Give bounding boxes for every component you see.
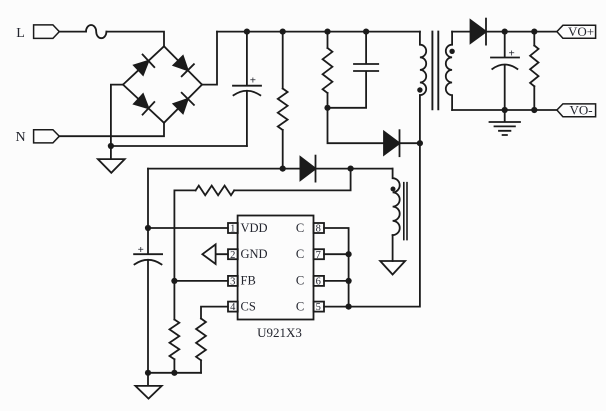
svg-text:3: 3 <box>230 277 235 288</box>
svg-text:CS: CS <box>241 299 256 313</box>
svg-text:2: 2 <box>230 250 235 261</box>
connector VO+ <box>557 25 596 38</box>
pin 4 box <box>228 302 238 314</box>
ground (IC) <box>135 373 161 399</box>
junction dot bottom left <box>145 370 151 376</box>
wire snubber to clamp diode <box>328 108 385 143</box>
wire bus to FB resistor <box>234 169 350 191</box>
wire N to bridge bottom <box>59 123 164 136</box>
aux winding phase dot <box>391 187 396 192</box>
capacitor C3 output <box>491 32 519 110</box>
svg-text:GND: GND <box>241 247 268 261</box>
junction dot bottom mid <box>171 370 177 376</box>
junction dot VDD <box>145 225 151 231</box>
svg-text:5: 5 <box>316 302 321 313</box>
wire top rail <box>217 31 420 33</box>
junction dot FB <box>171 278 177 284</box>
wire pin5 to drain <box>324 306 349 308</box>
transformer T1 secondary winding <box>446 32 452 110</box>
svg-text:C: C <box>296 299 304 313</box>
resistor R5 FB lower <box>170 320 180 360</box>
node junction dot gnd rail <box>108 143 114 149</box>
svg-text:U921X3: U921X3 <box>257 325 302 340</box>
junction dot output cap top <box>502 29 508 35</box>
fuse F1 <box>86 25 106 38</box>
resistor R2 snubber <box>327 32 329 48</box>
svg-text:C: C <box>296 221 304 235</box>
capacitor C2 snubber <box>328 32 379 108</box>
connector VO- <box>557 104 596 117</box>
pin 1 box <box>228 223 238 235</box>
svg-text:VO+: VO+ <box>568 24 594 39</box>
aux core <box>404 183 407 240</box>
wire fuse to bridge top <box>106 32 164 47</box>
svg-text:N: N <box>15 130 25 145</box>
junction dot output res top <box>531 29 537 35</box>
junction dot pin5 <box>346 304 352 310</box>
svg-text:+: + <box>508 47 514 59</box>
connector L <box>34 25 60 39</box>
junction dot cap bottom <box>502 107 508 113</box>
earth ground (secondary) <box>490 110 521 135</box>
pin 7 box <box>314 249 324 261</box>
svg-text:VO-: VO- <box>569 103 592 118</box>
wire secondary top to diode <box>452 31 470 33</box>
wire pin7 to bus <box>324 253 349 255</box>
svg-text:VDD: VDD <box>241 221 268 235</box>
junction dot drain/clamp <box>417 140 423 146</box>
wire FB column <box>173 190 175 319</box>
ground (primary) <box>98 146 125 173</box>
svg-text:6: 6 <box>316 277 321 288</box>
transformer T1 primary winding <box>420 32 426 96</box>
svg-text:7: 7 <box>316 250 321 261</box>
transformer T1 primary phase dot <box>417 87 422 92</box>
junction dot snubber bottom <box>324 105 330 111</box>
inductor L1 aux winding <box>393 169 400 236</box>
diode D6 output rectifier <box>471 19 557 45</box>
wire pin8 to bus <box>324 228 349 307</box>
connector N <box>34 130 60 143</box>
wire aux to ground arrow <box>392 235 394 261</box>
ground arrow (GND pin 2) <box>202 244 227 264</box>
svg-text:+: + <box>250 75 256 87</box>
wire diode row <box>148 168 300 170</box>
pin 3 box <box>228 276 238 288</box>
capacitor C4 VDD <box>134 228 162 373</box>
junction dot pin7 <box>346 251 352 257</box>
junction dot pin6 <box>346 278 352 284</box>
svg-text:C: C <box>296 274 304 288</box>
pin 2 box <box>228 249 238 261</box>
pin 5 box <box>314 302 324 314</box>
svg-text:L: L <box>16 26 25 41</box>
diode D5 clamp <box>384 130 420 156</box>
svg-text:C: C <box>296 247 304 261</box>
bridge edge bottom-right <box>164 85 202 123</box>
svg-text:+: + <box>138 244 144 256</box>
op-amp U1 box U921X3 <box>238 216 314 320</box>
wire VDD row <box>148 169 228 228</box>
wire bridge+ to top rail <box>202 32 217 85</box>
wire FB to pin3 <box>174 280 227 282</box>
resistor R6 CS sense <box>196 319 206 361</box>
wire bottom gnd rail <box>148 372 201 374</box>
junction dot diode row left <box>280 166 286 172</box>
wire secondary bottom rail <box>452 109 557 111</box>
resistor R3 output load <box>533 32 535 46</box>
bridge edge top-right <box>164 46 202 84</box>
junction dot diode row right <box>348 166 354 172</box>
wire bridge- to gnd rail <box>111 85 247 146</box>
wire primary bottom (drain) <box>349 95 420 307</box>
junction dot R1 top <box>280 29 286 35</box>
resistor R4 FB upper <box>196 186 235 196</box>
diode D4 (bridge bottom-right) <box>174 93 194 113</box>
ground (aux winding) <box>380 261 405 275</box>
diode D7 aux rectifier <box>300 156 392 182</box>
junction dot res bottom <box>531 107 537 113</box>
wire L to fuse <box>59 31 86 33</box>
diode D1 (bridge top-left) <box>134 55 154 75</box>
pin 8 box <box>314 223 324 235</box>
wire pin6 to bus <box>324 280 349 282</box>
transformer T1 core <box>432 32 438 110</box>
resistor R1 startup <box>282 32 284 89</box>
bridge edge top-left <box>123 46 164 84</box>
capacitor C1 bulk + lead <box>233 32 261 146</box>
svg-text:FB: FB <box>241 274 256 288</box>
diode D3 (bridge bottom-left) <box>134 94 154 114</box>
bridge edge bottom-left <box>123 85 164 123</box>
pin 6 box <box>314 276 324 288</box>
wire CS to pin4 <box>201 307 228 319</box>
transformer T1 secondary phase dot <box>449 49 454 54</box>
svg-text:4: 4 <box>230 302 236 313</box>
diode D2 (bridge top-right) <box>174 56 194 76</box>
svg-text:8: 8 <box>316 224 321 235</box>
junction dot R2 top <box>324 29 330 35</box>
junction dot C2 top <box>363 29 369 35</box>
svg-text:1: 1 <box>230 224 235 235</box>
junction dot C1 top <box>244 29 250 35</box>
